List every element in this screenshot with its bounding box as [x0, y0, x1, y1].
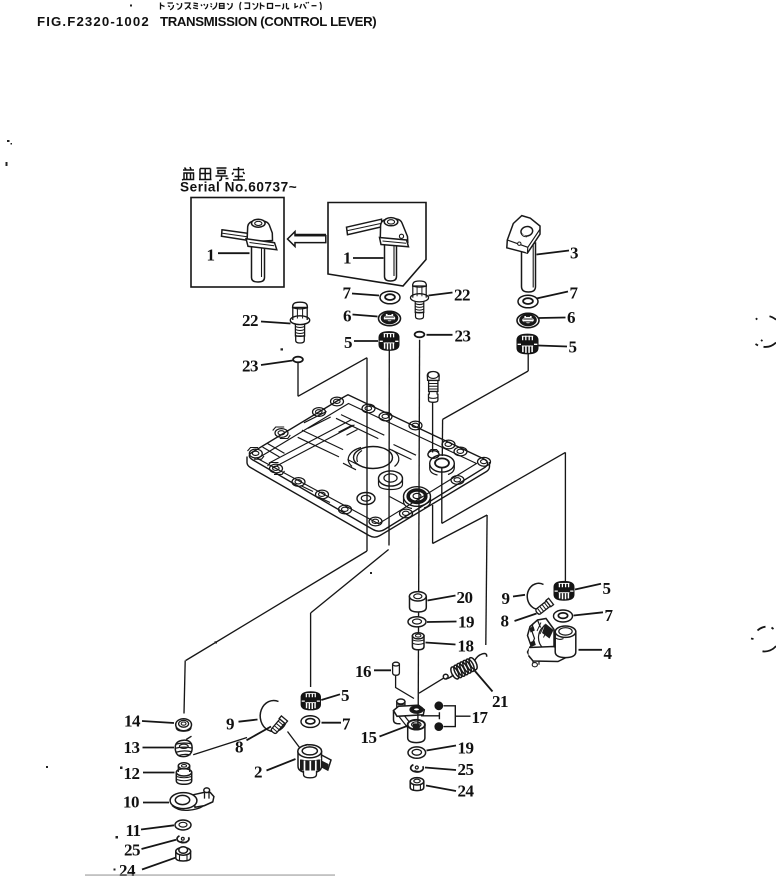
wire: ring23L down: [297, 363, 299, 397]
svg-text:24: 24: [458, 782, 475, 801]
svg-text:5: 5: [344, 333, 352, 352]
nut 24 lower: [410, 778, 424, 791]
dark boss (22/23 axis): [404, 487, 431, 507]
svg-text:8: 8: [501, 612, 509, 631]
wire: axis 22/23 middle down to cluster 20/19/18/15: [418, 340, 419, 712]
wire: small bolt axis below plate: [432, 505, 434, 544]
snap ring 23 left: [293, 357, 303, 363]
lever 1 (right box): [347, 218, 409, 281]
wire: axis through lever 15 collar: [417, 712, 419, 724]
big boss ellipse: [354, 447, 393, 469]
serial box left: [191, 198, 284, 288]
plate bolt hole 3: [379, 412, 392, 421]
serial kanji 適用号種 (drawn): [182, 167, 245, 181]
washer 7 middle: [380, 291, 400, 304]
wire: down to bearing 5: [310, 613, 312, 687]
snap ring 25: [177, 836, 189, 843]
svg-text:9: 9: [226, 715, 234, 734]
pin 8 right: [534, 598, 553, 615]
snap ring 25 lower: [411, 765, 424, 772]
nut 24: [176, 847, 191, 861]
plate bolt hole 16: [454, 447, 467, 456]
faint bottom rule: [85, 875, 335, 876]
plate bolt hole 13: [369, 517, 382, 526]
wire: diagonal to cluster 14: [186, 551, 367, 661]
svg-text:14: 14: [124, 712, 141, 731]
wire: bearing 5R down: [527, 354, 529, 372]
spring pin arc 9 left: [260, 700, 285, 731]
plate bolt hole 10: [292, 478, 305, 487]
pin 16: [393, 662, 400, 675]
lever shaft 3: [507, 216, 540, 292]
lever 15 assembly: [394, 699, 425, 743]
washer 7 lower-middle: [301, 716, 320, 728]
svg-text:5: 5: [603, 579, 611, 598]
wire: spring 13 seat line: [193, 738, 247, 755]
svg-text:8: 8: [235, 738, 243, 757]
pin set 17 (two dots with bracket): [421, 702, 471, 730]
svg-text:TRANSMISSION (CONTROL LEVER): TRANSMISSION (CONTROL LEVER): [160, 14, 376, 29]
spring 21: [443, 654, 486, 681]
svg-text:13: 13: [124, 738, 140, 757]
svg-text:7: 7: [570, 284, 579, 303]
wire: small bolt axis to plate: [432, 403, 434, 453]
wire: part4 axis down: [564, 452, 566, 584]
nut 14: [176, 719, 192, 732]
lever 1 (left box): [222, 219, 277, 282]
arrow between boxes: [288, 232, 326, 247]
wire: diagonal to cluster 5/7 lower middle: [311, 550, 389, 614]
washer 19 lower: [408, 747, 426, 758]
wire: down to nut 14: [184, 661, 185, 714]
plate bolt hole 1: [313, 408, 326, 417]
svg-text:17: 17: [472, 708, 489, 727]
bushing 18: [412, 633, 424, 650]
hex nut flats on left-side holes: [248, 427, 291, 474]
wire: pin 8 to lever 2: [288, 732, 300, 748]
washer 7 right: [518, 295, 538, 308]
small boss (23-left axis): [357, 493, 375, 505]
svg-text:15: 15: [361, 728, 377, 747]
wire: down into boss: [441, 419, 443, 456]
boss under part1 axis: [379, 471, 403, 486]
svg-text:5: 5: [569, 338, 577, 357]
bearing 6 middle: [379, 311, 401, 326]
header japanese katakana line (drawn strokes): [161, 2, 322, 10]
needle bearing 5 right-lower: [554, 581, 574, 600]
svg-text:22: 22: [454, 286, 470, 305]
wire: jog around plate to part4 axis: [442, 452, 566, 523]
plate bolt hole 4: [275, 429, 288, 438]
svg-text:7: 7: [343, 284, 352, 303]
svg-text:3: 3: [570, 244, 578, 263]
wire: spring to lever 15: [419, 678, 443, 693]
svg-text:22: 22: [242, 311, 258, 330]
wire: axis x389 bearing5M through plate: [388, 351, 390, 546]
scan specks: [6, 5, 373, 871]
svg-text:19: 19: [458, 739, 474, 758]
svg-text:6: 6: [567, 308, 575, 327]
washer 19: [408, 617, 426, 627]
bushing 12: [176, 763, 191, 785]
svg-text:18: 18: [458, 637, 474, 656]
washer 7 right-lower: [554, 610, 573, 622]
plate bolt hole 15: [451, 476, 464, 485]
svg-text:23: 23: [242, 357, 258, 376]
plate bolt hole 5: [249, 449, 262, 458]
bolt 22 left: [290, 302, 309, 343]
plate bolt hole 7: [442, 440, 455, 449]
bolt 22 middle: [410, 281, 428, 319]
svg-text:23: 23: [455, 327, 471, 346]
plate bolt hole 12: [339, 505, 352, 514]
plate top face outline: [249, 395, 487, 531]
svg-text:20: 20: [457, 588, 473, 607]
plate bolt hole 9: [270, 464, 283, 473]
spring pin arc 9 right: [527, 583, 548, 609]
plate bolt hole 14: [400, 509, 413, 518]
svg-text:7: 7: [342, 715, 351, 734]
svg-text:25: 25: [458, 760, 474, 779]
svg-text:2: 2: [254, 763, 262, 782]
svg-text:25: 25: [124, 841, 140, 860]
binder ring mark lower: [751, 627, 776, 652]
svg-text:1: 1: [207, 246, 215, 265]
screw hole for small bolt: [428, 451, 439, 459]
boss right (part3/4 axis): [430, 455, 455, 472]
svg-text:4: 4: [604, 644, 613, 663]
plate bolt hole 17: [331, 397, 344, 406]
wire: spring hanger down to spring 21: [486, 515, 487, 645]
wire: diagonal 23L to axis: [298, 358, 367, 397]
snap ring 23 middle: [415, 332, 425, 338]
plate bolt hole 2: [362, 404, 375, 413]
plate side thickness: [247, 457, 490, 538]
wire: diagonal to plate boss: [443, 371, 529, 419]
plate bolt hole 8: [478, 457, 491, 466]
svg-text:6: 6: [343, 307, 351, 326]
needle bearing 5 lower-middle: [301, 692, 320, 710]
svg-text:10: 10: [123, 793, 139, 812]
washer 11: [175, 820, 191, 830]
serial box right (pentagon): [328, 203, 426, 287]
svg-text:11: 11: [126, 821, 141, 840]
svg-text:5: 5: [341, 686, 349, 705]
needle bearing 5 middle: [379, 332, 399, 351]
svg-text:19: 19: [458, 613, 474, 632]
lever bushing 2: [298, 745, 331, 778]
svg-text:Serial No.60737~: Serial No.60737~: [180, 180, 297, 195]
wire: pin 16 to lever 15: [396, 676, 414, 699]
plate bolt hole 6: [409, 421, 422, 430]
lever 10: [170, 788, 214, 810]
lever 4: [528, 619, 576, 667]
bearing 6 right: [517, 313, 539, 328]
inner rim line: [258, 404, 477, 524]
svg-text:1: 1: [343, 249, 351, 268]
svg-text:FIG.F2320-1002: FIG.F2320-1002: [37, 14, 150, 29]
pin 8 left: [270, 716, 288, 735]
svg-text:7: 7: [605, 606, 614, 625]
svg-text:12: 12: [124, 764, 140, 783]
plate bolt hole 11: [316, 490, 329, 499]
binder ring mark upper: [756, 316, 776, 347]
wire: axis x367 through plate to lower-left: [366, 358, 368, 551]
svg-text:9: 9: [502, 589, 510, 608]
spring 13: [175, 736, 192, 756]
needle bearing 5 right: [517, 334, 538, 354]
anchor stud (small bolt above plate): [427, 372, 439, 403]
wire: below plate: [441, 468, 443, 523]
wire: jog up to spring hanger: [433, 515, 488, 544]
svg-text:16: 16: [355, 662, 371, 681]
bushing 20: [409, 592, 426, 612]
interior ribs: [263, 412, 417, 505]
svg-text:21: 21: [492, 692, 508, 711]
